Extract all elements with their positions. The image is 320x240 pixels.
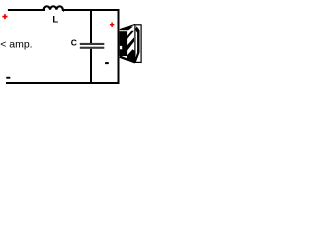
speaker cone upper wedge	[120, 27, 133, 31]
wire right vertical	[118, 9, 120, 84]
svg-text:L: L	[52, 15, 58, 26]
node + (speaker positive)	[110, 23, 114, 27]
capacitor C top plate	[80, 43, 105, 45]
speaker cone stripe 1	[127, 31, 134, 39]
speaker cone stripe 3	[127, 49, 135, 62]
speaker cone top edge	[120, 24, 135, 29]
node - (amplifier negative terminal)	[6, 77, 10, 79]
wire top-left segment	[8, 9, 45, 11]
svg-text:C: C	[71, 38, 77, 48]
wire top-right segment	[62, 9, 120, 11]
node + (amplifier positive terminal)	[2, 14, 7, 19]
wire capacitor upper branch	[90, 10, 92, 44]
svg-text:< amp.: < amp.	[0, 39, 32, 51]
speaker magnet notch	[120, 46, 122, 49]
speaker cone stripe 2	[127, 37, 134, 50]
speaker rim frame	[135, 25, 141, 63]
speaker LS1	[120, 24, 141, 62]
speaker cone inner ring shading	[134, 26, 140, 62]
wire bottom	[6, 82, 120, 84]
speaker magnet	[120, 31, 128, 56]
speaker cone bottom edge	[120, 57, 135, 63]
node - (speaker negative)	[105, 62, 109, 64]
wire capacitor lower branch	[90, 49, 92, 83]
inductor L coil	[44, 6, 65, 11]
capacitor C bottom plate	[80, 47, 105, 49]
